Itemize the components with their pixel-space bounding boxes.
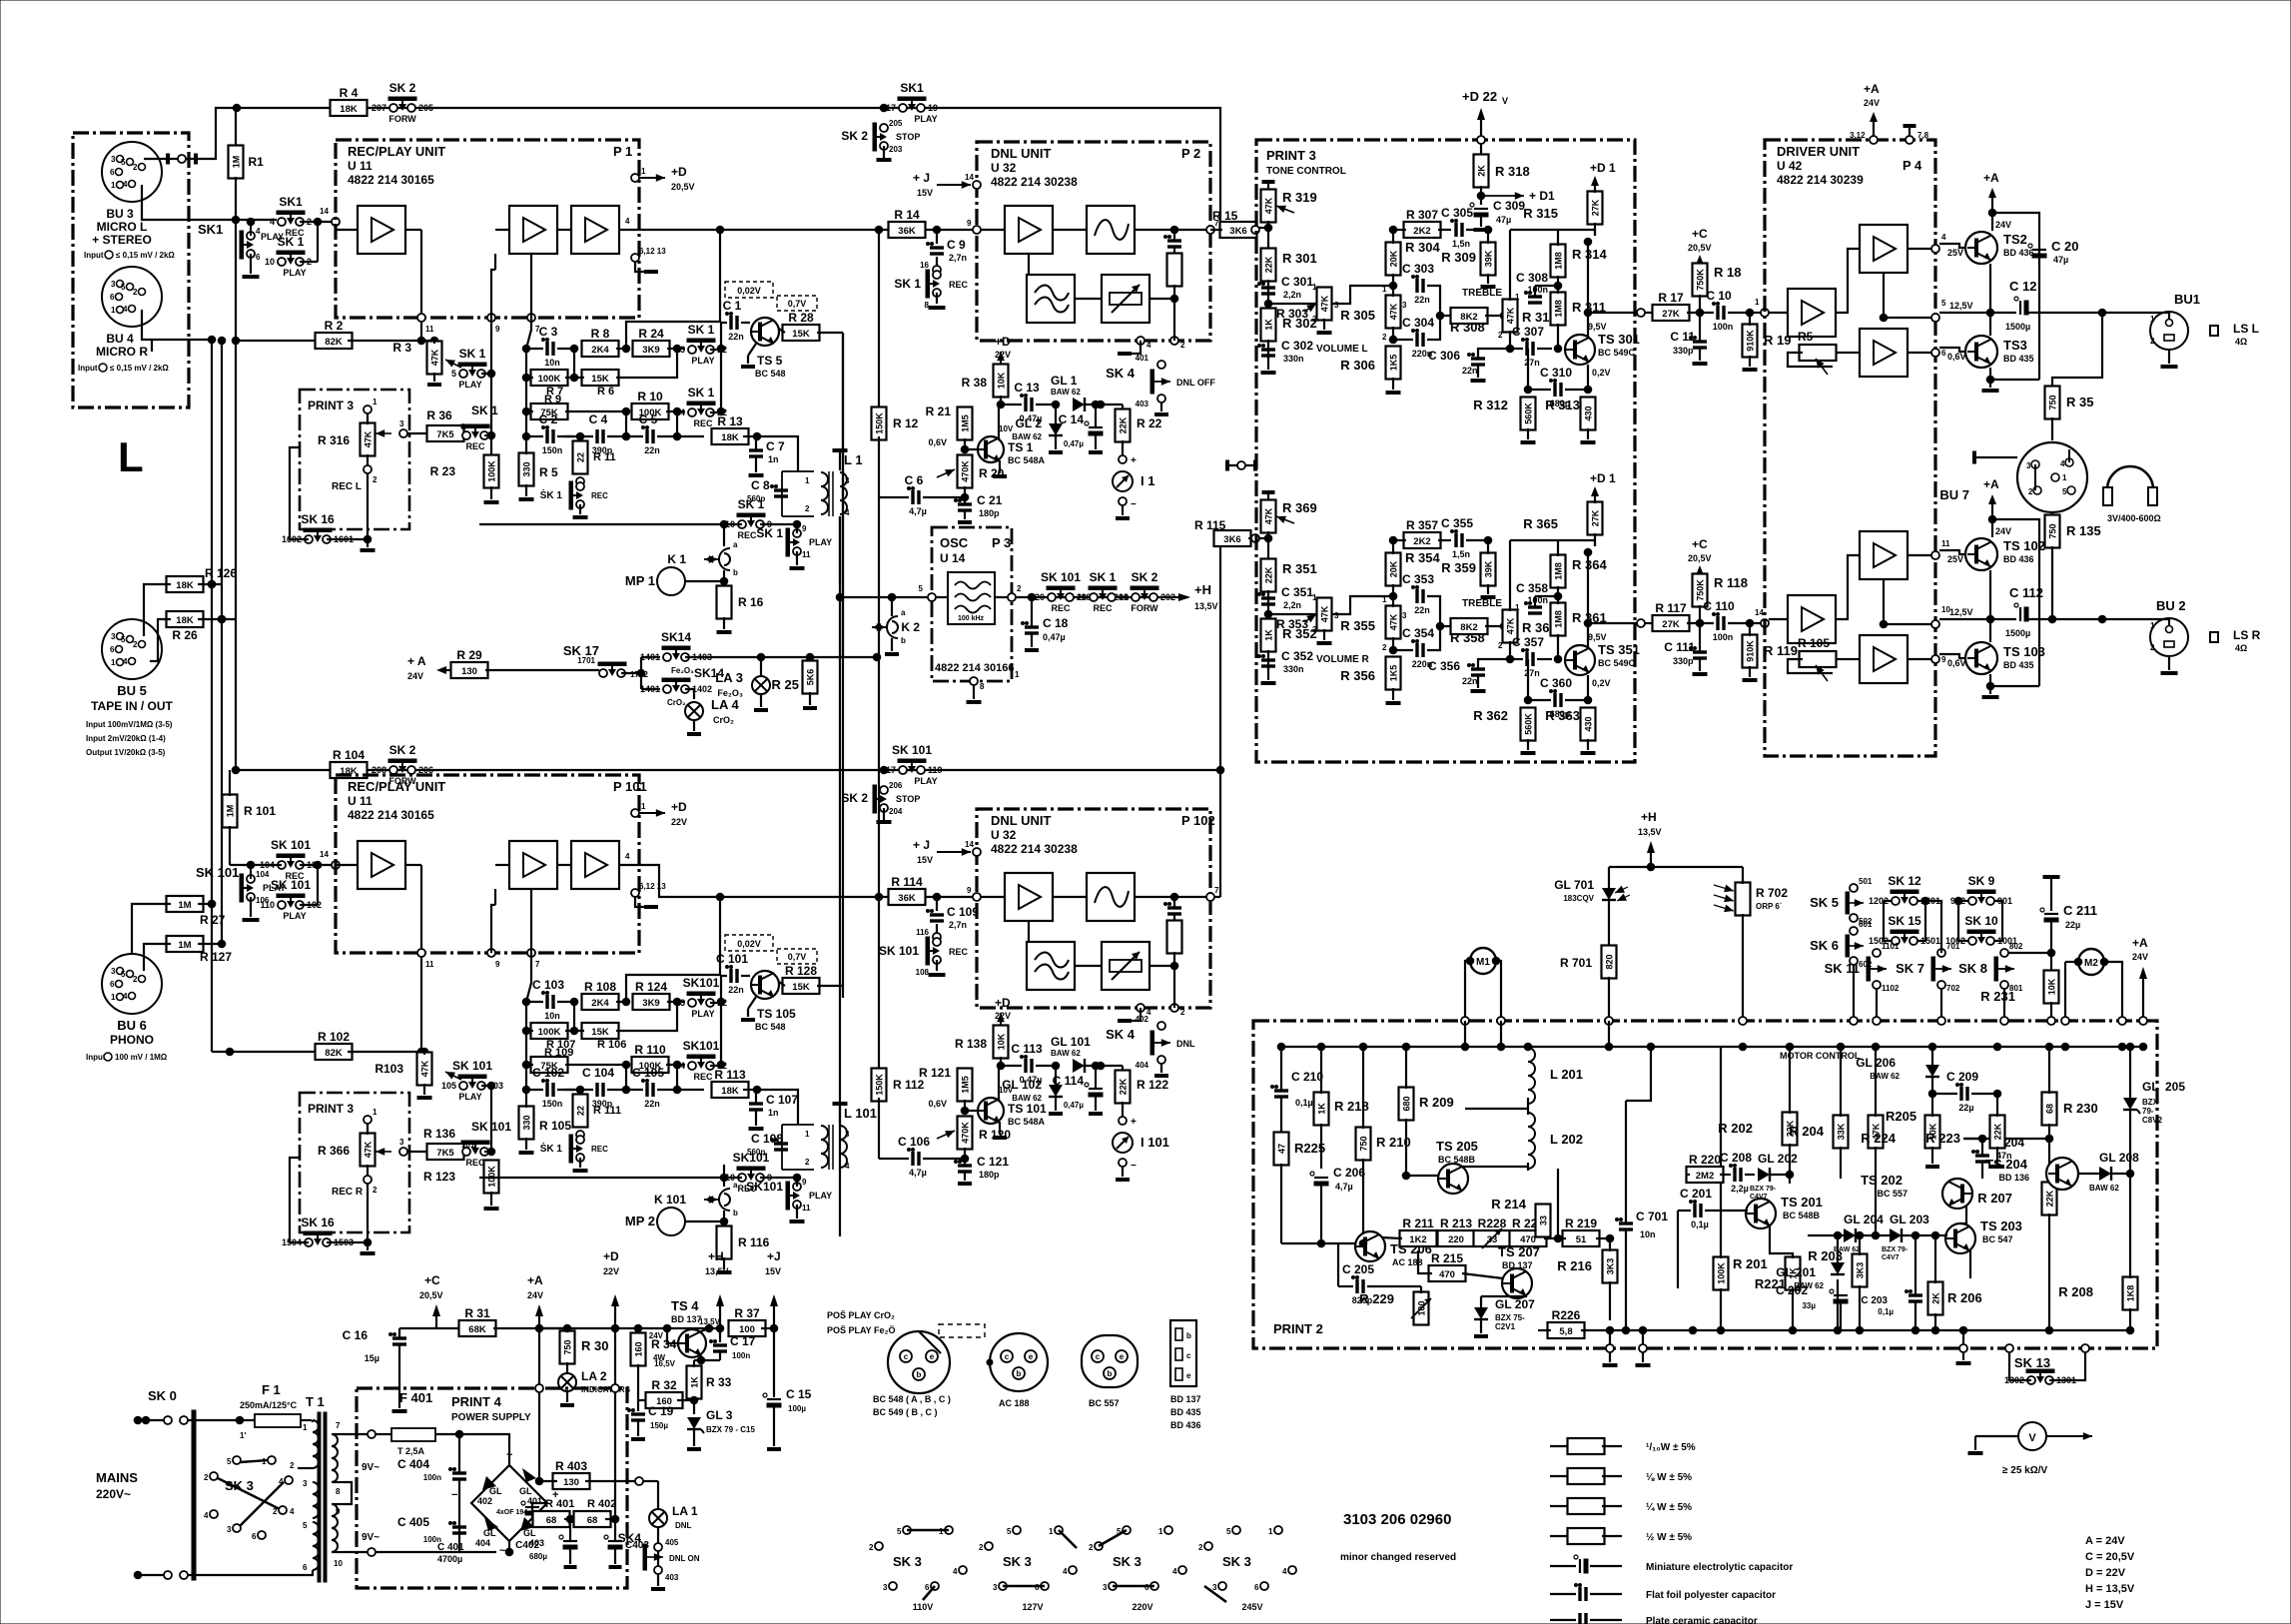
svg-text:Input: Input bbox=[78, 364, 98, 373]
svg-text:2K4: 2K4 bbox=[591, 998, 609, 1009]
svg-text:5: 5 bbox=[897, 1527, 902, 1536]
svg-text:GL 201: GL 201 bbox=[1776, 1265, 1816, 1279]
connector BU4 MICRO R bbox=[102, 267, 162, 327]
module box REC/PLAY UNIT P 1 bbox=[336, 140, 639, 318]
svg-text:1: 1 bbox=[303, 1423, 308, 1432]
svg-text:REC: REC bbox=[465, 441, 485, 451]
svg-text:C 11: C 11 bbox=[1670, 330, 1695, 344]
capacitor C 103 bbox=[545, 995, 548, 1009]
svg-text:33: 33 bbox=[1487, 1234, 1498, 1245]
svg-text:14: 14 bbox=[320, 207, 329, 216]
svg-text:5: 5 bbox=[2062, 487, 2067, 496]
capacitor C 21 bbox=[958, 502, 972, 505]
resistor R227 bbox=[1510, 1230, 1547, 1246]
wire R102 bus bbox=[212, 1051, 320, 1053]
svg-text:1M: 1M bbox=[232, 156, 242, 169]
svg-text:2: 2 bbox=[1180, 1008, 1185, 1017]
capacitor C 304 bbox=[1415, 333, 1418, 347]
svg-text:R 305: R 305 bbox=[1340, 308, 1375, 323]
resistor R224 bbox=[1925, 1116, 1940, 1149]
svg-text:C 404: C 404 bbox=[397, 1457, 429, 1471]
diode GL201 bbox=[1831, 1262, 1845, 1274]
svg-text:2: 2 bbox=[1498, 331, 1503, 340]
diode GL205 bbox=[2123, 1098, 2137, 1110]
svg-text:47K: 47K bbox=[1264, 507, 1274, 524]
resistor R 107 bbox=[531, 1023, 568, 1039]
svg-text:14: 14 bbox=[320, 850, 329, 859]
svg-text:POS̈ PLAY CrO₂: POS̈ PLAY CrO₂ bbox=[827, 1310, 895, 1320]
svg-text:4: 4 bbox=[625, 217, 630, 226]
svg-text:220: 220 bbox=[1448, 1234, 1464, 1245]
pot R 310 bbox=[1503, 300, 1518, 333]
motor M1 bbox=[1470, 948, 1496, 974]
pot R 316 bbox=[361, 423, 376, 456]
svg-text:7: 7 bbox=[336, 1421, 341, 1430]
svg-text:10: 10 bbox=[334, 1559, 343, 1568]
varistor block bbox=[1102, 942, 1149, 990]
resistor R209 bbox=[1399, 1088, 1414, 1121]
svg-text:7,8: 7,8 bbox=[1917, 131, 1929, 140]
svg-text:680µ: 680µ bbox=[529, 1552, 547, 1561]
resistor R 116 bbox=[717, 1226, 732, 1259]
switch SK17 bbox=[599, 669, 607, 677]
resistor R 121 bbox=[958, 1069, 973, 1102]
svg-text:R 10: R 10 bbox=[637, 390, 663, 404]
svg-text:PLAY: PLAY bbox=[809, 537, 832, 547]
svg-text:R 124: R 124 bbox=[635, 980, 667, 994]
svg-text:R 117: R 117 bbox=[1655, 601, 1687, 615]
resistor R 306 bbox=[1386, 347, 1401, 380]
svg-text:R 4: R 4 bbox=[340, 86, 359, 100]
svg-text:9: 9 bbox=[495, 960, 500, 969]
svg-text:BD 137: BD 137 bbox=[1170, 1394, 1201, 1404]
svg-text:BD 137: BD 137 bbox=[1502, 1260, 1533, 1270]
svg-text:36K: 36K bbox=[898, 893, 916, 904]
svg-text:47K: 47K bbox=[1264, 197, 1274, 214]
svg-text:3: 3 bbox=[883, 1583, 888, 1592]
svg-text:SK 3: SK 3 bbox=[225, 1478, 254, 1493]
svg-text:V: V bbox=[2028, 1432, 2036, 1444]
svg-text:2: 2 bbox=[133, 640, 138, 649]
svg-text:R 223: R 223 bbox=[1925, 1131, 1960, 1146]
svg-text:R 362: R 362 bbox=[1473, 708, 1508, 723]
svg-text:1,5n: 1,5n bbox=[1452, 549, 1470, 559]
svg-text:C 18: C 18 bbox=[1043, 616, 1069, 630]
svg-text:V: V bbox=[1502, 96, 1508, 106]
svg-text:1M5: 1M5 bbox=[961, 1076, 971, 1094]
svg-text:PRINT 2: PRINT 2 bbox=[1273, 1321, 1323, 1336]
svg-text:C 201: C 201 bbox=[1680, 1187, 1712, 1201]
svg-text:5: 5 bbox=[919, 584, 924, 593]
capacitor C 12 bbox=[2019, 301, 2021, 315]
resistor R26 bbox=[167, 611, 204, 627]
svg-text:R 22: R 22 bbox=[1137, 416, 1162, 430]
svg-text:SK 4: SK 4 bbox=[1106, 366, 1136, 381]
svg-text:b: b bbox=[917, 1370, 922, 1379]
resistor R204 bbox=[1834, 1116, 1849, 1149]
switch SK1 rec 10-9 bbox=[738, 1174, 746, 1182]
svg-text:1M: 1M bbox=[178, 900, 191, 911]
svg-text:SK 6: SK 6 bbox=[1810, 938, 1839, 953]
capacitor C 351 bbox=[1261, 596, 1275, 599]
svg-text:0,02V: 0,02V bbox=[737, 286, 761, 296]
svg-text:206: 206 bbox=[889, 781, 903, 790]
svg-text:BC 549C: BC 549C bbox=[1598, 348, 1636, 358]
svg-text:K 101: K 101 bbox=[654, 1193, 686, 1207]
capacitor C18 bbox=[1025, 625, 1039, 628]
svg-text:390p: 390p bbox=[592, 1099, 613, 1109]
svg-text:1: 1 bbox=[111, 658, 116, 667]
resistor R 364 bbox=[1551, 555, 1566, 588]
svg-text:4: 4 bbox=[1282, 1567, 1287, 1576]
svg-text:5: 5 bbox=[1007, 1527, 1012, 1536]
svg-text:5K6: 5K6 bbox=[806, 669, 816, 686]
svg-text:C 309: C 309 bbox=[1493, 199, 1525, 213]
svg-text:27n: 27n bbox=[1524, 668, 1540, 678]
svg-text:C 104: C 104 bbox=[582, 1066, 614, 1080]
svg-text:minor changed reserved: minor changed reserved bbox=[1340, 1552, 1456, 1563]
svg-text:18K: 18K bbox=[176, 615, 194, 626]
switch SK1 rec 10-9 bbox=[738, 520, 746, 528]
pot R366 bbox=[361, 1134, 376, 1167]
svg-text:R 30: R 30 bbox=[581, 1338, 608, 1353]
svg-text:REC: REC bbox=[949, 947, 969, 957]
capacitor C 112 bbox=[2019, 607, 2021, 621]
svg-text:2: 2 bbox=[869, 1543, 874, 1552]
svg-text:16: 16 bbox=[920, 261, 929, 270]
svg-text:R 37: R 37 bbox=[734, 1306, 760, 1320]
legend resistors bbox=[1550, 1445, 1570, 1447]
svg-text:C 109: C 109 bbox=[947, 905, 979, 919]
svg-text:100 kHz: 100 kHz bbox=[958, 615, 985, 622]
svg-text:1K2: 1K2 bbox=[1409, 1234, 1426, 1245]
switch SK6 bbox=[1846, 935, 1850, 957]
svg-text:SK 1: SK 1 bbox=[688, 386, 715, 400]
svg-text:180p: 180p bbox=[979, 1170, 1000, 1180]
capacitor C404 bbox=[452, 1471, 466, 1474]
svg-text:180p: 180p bbox=[979, 508, 1000, 518]
svg-text:1: 1 bbox=[1268, 1527, 1273, 1536]
svg-text:5: 5 bbox=[121, 283, 126, 292]
svg-text:22: 22 bbox=[576, 452, 586, 462]
svg-text:U 32: U 32 bbox=[991, 828, 1017, 842]
svg-text:e: e bbox=[1186, 1371, 1191, 1380]
emitter junction bbox=[1989, 570, 1991, 619]
svg-text:PLAY: PLAY bbox=[809, 1191, 832, 1201]
svg-text:4,7µ: 4,7µ bbox=[1335, 1182, 1353, 1192]
capacitor C 5 bbox=[645, 429, 648, 443]
svg-text:+D: +D bbox=[671, 165, 687, 179]
svg-text:+ J: + J bbox=[913, 838, 930, 852]
resistor R 10 bbox=[632, 404, 669, 419]
svg-text:1K5: 1K5 bbox=[1389, 355, 1399, 372]
svg-text:C 110: C 110 bbox=[1703, 599, 1735, 613]
switch SK2 stop lower bbox=[880, 786, 888, 794]
resistor R33 bbox=[694, 1359, 701, 1361]
pot R213 bbox=[1438, 1230, 1475, 1246]
pin 5 bbox=[928, 593, 936, 601]
svg-text:15V: 15V bbox=[917, 855, 933, 865]
svg-text:BC 548A: BC 548A bbox=[1008, 1117, 1046, 1127]
TS1 collector bbox=[998, 405, 1000, 439]
svg-text:DNL ON: DNL ON bbox=[669, 1554, 700, 1563]
resistor R 36 bbox=[427, 425, 464, 441]
wire C1 top link bbox=[626, 322, 721, 349]
svg-text:SK 12: SK 12 bbox=[1888, 874, 1921, 888]
svg-text:PLAY: PLAY bbox=[458, 380, 481, 390]
svg-text:117: 117 bbox=[881, 765, 896, 775]
TS3 emitter gnd bbox=[1989, 368, 1991, 388]
capacitor C 1 bbox=[729, 316, 732, 330]
svg-text:100K: 100K bbox=[487, 460, 497, 482]
lamp LA3 bbox=[760, 657, 762, 675]
svg-text:PRINT 4: PRINT 4 bbox=[451, 1394, 502, 1409]
pot R 360 bbox=[1503, 610, 1518, 643]
driver top op-amp bbox=[1860, 225, 1908, 273]
svg-text:10: 10 bbox=[265, 257, 275, 267]
svg-text:13,5V: 13,5V bbox=[1194, 601, 1218, 611]
svg-text:1M5: 1M5 bbox=[961, 414, 971, 432]
svg-text:R 109: R 109 bbox=[544, 1047, 573, 1059]
capacitor C 357 bbox=[1525, 652, 1528, 666]
svg-text:SK101: SK101 bbox=[683, 1039, 720, 1053]
svg-text:TS 105: TS 105 bbox=[757, 1007, 796, 1021]
svg-text:MP 1: MP 1 bbox=[625, 573, 655, 588]
coil L202 bbox=[1528, 1113, 1535, 1169]
svg-text:PLAY: PLAY bbox=[458, 1092, 481, 1102]
svg-text:c: c bbox=[1096, 1352, 1101, 1361]
svg-text:BC 548: BC 548 bbox=[755, 1022, 786, 1032]
svg-text:SK 17: SK 17 bbox=[563, 643, 599, 658]
switch SK1 rec vert bbox=[576, 1136, 584, 1144]
svg-text:25V: 25V bbox=[1947, 248, 1963, 258]
svg-text:750K: 750K bbox=[1696, 579, 1706, 601]
svg-text:+D 1: +D 1 bbox=[1590, 161, 1616, 175]
svg-text:TS 4: TS 4 bbox=[671, 1298, 699, 1313]
svg-text:910K: 910K bbox=[1746, 330, 1756, 352]
svg-text:SK 16: SK 16 bbox=[301, 1216, 335, 1229]
svg-text:4822 214 30239: 4822 214 30239 bbox=[1777, 173, 1864, 187]
resistor R 363 bbox=[1581, 708, 1596, 741]
svg-text:C 355: C 355 bbox=[1441, 516, 1473, 530]
switch SK2 forw osc bbox=[1132, 593, 1140, 601]
resistor R 307 bbox=[1404, 222, 1441, 238]
svg-text:+A: +A bbox=[527, 1273, 543, 1287]
pin 11 bbox=[417, 314, 425, 322]
svg-text:BC 549C: BC 549C bbox=[1598, 658, 1636, 668]
svg-text:BD 435: BD 435 bbox=[2003, 354, 2034, 364]
svg-text:REC/PLAY UNIT: REC/PLAY UNIT bbox=[348, 144, 445, 159]
svg-text:GL 2: GL 2 bbox=[1016, 416, 1043, 430]
capacitor C202 bbox=[1834, 1294, 1848, 1296]
svg-text:GL 202: GL 202 bbox=[1758, 1152, 1798, 1166]
svg-text:BC 557: BC 557 bbox=[1089, 1398, 1120, 1408]
resistor R 19 bbox=[1743, 325, 1758, 358]
svg-text:5,8: 5,8 bbox=[1559, 1326, 1572, 1337]
op-amp A2 bbox=[509, 841, 557, 889]
capacitor C 3 bbox=[545, 342, 548, 356]
svg-text:110V: 110V bbox=[913, 1602, 934, 1612]
svg-text:SK 101: SK 101 bbox=[892, 743, 932, 757]
collector rail bbox=[1992, 519, 2039, 686]
svg-text:SK 11: SK 11 bbox=[1825, 961, 1860, 976]
0.7v dashed label bbox=[777, 296, 817, 311]
svg-text:MICRO L: MICRO L bbox=[97, 220, 148, 234]
svg-text:17: 17 bbox=[886, 103, 896, 113]
svg-text:203: 203 bbox=[889, 145, 903, 154]
capacitor C 121 bbox=[958, 1164, 972, 1167]
TS301 collector wire bbox=[1587, 242, 1589, 339]
svg-text:12,5V: 12,5V bbox=[1949, 607, 1973, 617]
svg-text:47: 47 bbox=[1277, 1144, 1287, 1154]
lamp LA2 bbox=[558, 1373, 576, 1391]
resistor R5 ladder bbox=[519, 453, 534, 486]
svg-text:68: 68 bbox=[546, 1515, 557, 1526]
svg-text:+ D1: + D1 bbox=[1529, 189, 1555, 203]
capacitor C 310 bbox=[1553, 383, 1556, 397]
photo diode GL701 bbox=[1602, 888, 1616, 900]
svg-text:R 38: R 38 bbox=[962, 376, 988, 390]
svg-text:100K: 100K bbox=[538, 1027, 561, 1038]
svg-text:TS 203: TS 203 bbox=[1980, 1218, 2022, 1233]
svg-text:22µ: 22µ bbox=[2065, 920, 2080, 930]
svg-text:47µ: 47µ bbox=[2053, 255, 2068, 265]
output node pin bbox=[1637, 619, 1645, 627]
resistor R 302 bbox=[1261, 309, 1276, 342]
svg-text:R 119: R 119 bbox=[1764, 643, 1798, 658]
svg-text:39K: 39K bbox=[1484, 560, 1494, 577]
transistor TS203 bbox=[1945, 1223, 1975, 1253]
svg-text:C 15: C 15 bbox=[786, 1387, 812, 1401]
svg-text:9: 9 bbox=[967, 886, 972, 895]
svg-text:12,5V: 12,5V bbox=[1949, 301, 1973, 311]
resistor R 12 bbox=[878, 230, 880, 410]
capacitor C 101 bbox=[729, 969, 732, 983]
svg-text:F 1: F 1 bbox=[262, 1382, 281, 1397]
svg-text:C 4: C 4 bbox=[589, 412, 608, 426]
svg-text:2: 2 bbox=[2150, 643, 2155, 652]
svg-text:LA 4: LA 4 bbox=[711, 697, 739, 712]
svg-text:100 mV / 1MΩ: 100 mV / 1MΩ bbox=[115, 1053, 168, 1062]
capacitor C 301 bbox=[1261, 286, 1275, 289]
svg-text:C 10: C 10 bbox=[1706, 289, 1732, 303]
svg-text:C 2: C 2 bbox=[539, 412, 558, 426]
svg-text:205: 205 bbox=[2165, 1080, 2185, 1094]
svg-text:GL: GL bbox=[2142, 1080, 2159, 1094]
svg-text:82K: 82K bbox=[325, 1048, 343, 1059]
svg-text:2,2µ: 2,2µ bbox=[1731, 1184, 1749, 1194]
svg-text:C 8: C 8 bbox=[751, 478, 770, 492]
emitter junction bbox=[1989, 264, 1991, 313]
pot R103 bbox=[417, 1053, 432, 1086]
measure point MP 2 bbox=[657, 1208, 685, 1235]
svg-text:47µ: 47µ bbox=[1496, 215, 1511, 225]
pot R105 bbox=[1833, 658, 1848, 660]
capacitor C204 bbox=[1975, 1154, 1989, 1157]
resistor R 23 bbox=[490, 318, 492, 456]
pin 9 bbox=[487, 314, 495, 322]
svg-text:201: 201 bbox=[1114, 592, 1129, 602]
svg-text:750: 750 bbox=[2048, 395, 2058, 409]
svg-text:TS 202: TS 202 bbox=[1861, 1173, 1903, 1188]
svg-text:245V: 245V bbox=[1241, 1602, 1262, 1612]
capacitor C17 bbox=[719, 1328, 721, 1342]
svg-text:BD 435: BD 435 bbox=[1170, 1407, 1201, 1417]
svg-text:C 7: C 7 bbox=[766, 439, 785, 453]
resistor R37 bbox=[729, 1320, 766, 1336]
switch SK1 play 13-12 bbox=[688, 999, 696, 1007]
svg-text:R 355: R 355 bbox=[1340, 618, 1375, 633]
filter sine block bbox=[1087, 206, 1135, 254]
svg-text:BAW 62: BAW 62 bbox=[1834, 1246, 1860, 1253]
svg-text:750K: 750K bbox=[1696, 269, 1706, 291]
svg-text:402: 402 bbox=[1136, 1015, 1149, 1024]
svg-text:820p: 820p bbox=[1352, 1295, 1373, 1305]
svg-text:R 23: R 23 bbox=[430, 464, 456, 478]
svg-text:BZX 79-: BZX 79- bbox=[1882, 1246, 1909, 1253]
svg-text:150K: 150K bbox=[875, 1074, 885, 1096]
svg-text:R 28: R 28 bbox=[788, 311, 814, 325]
pin 2 bbox=[1008, 593, 1016, 601]
svg-text:3: 3 bbox=[227, 1525, 232, 1534]
svg-text:0,1µ: 0,1µ bbox=[1691, 1219, 1709, 1229]
svg-text:TS 205: TS 205 bbox=[1436, 1139, 1478, 1154]
svg-text:R 201: R 201 bbox=[1733, 1256, 1768, 1271]
svg-text:2: 2 bbox=[2150, 337, 2155, 346]
module box PRINT 2 bbox=[1253, 1021, 2157, 1348]
switch SK16 lower bbox=[305, 1238, 313, 1246]
svg-text:3K6: 3K6 bbox=[1229, 226, 1246, 237]
svg-text:10n: 10n bbox=[544, 1011, 560, 1021]
op-amp A2 bbox=[509, 206, 557, 254]
svg-text:24V: 24V bbox=[1995, 526, 2011, 536]
pot R 3 bbox=[348, 340, 434, 342]
svg-text:R 17: R 17 bbox=[1658, 291, 1684, 305]
svg-text:BZX: BZX bbox=[2142, 1098, 2159, 1107]
svg-text:22K: 22K bbox=[1119, 416, 1129, 433]
svg-text:11: 11 bbox=[425, 960, 434, 969]
resistor R135 bbox=[2051, 512, 2053, 516]
wire R2 bus bbox=[236, 340, 320, 342]
resistor R 38 bbox=[1000, 352, 1002, 366]
op-amp DNL bbox=[1005, 206, 1053, 254]
svg-text:100K: 100K bbox=[487, 1166, 497, 1188]
svg-text:2: 2 bbox=[133, 288, 138, 297]
capacitor dnl internal bbox=[1167, 239, 1181, 242]
svg-text:R205: R205 bbox=[1886, 1109, 1916, 1124]
svg-text:2: 2 bbox=[1017, 584, 1022, 593]
svg-text:403: 403 bbox=[665, 1573, 679, 1582]
svg-text:T 1: T 1 bbox=[306, 1394, 325, 1409]
switch SK101 play2 bbox=[278, 901, 286, 909]
svg-text:R 357: R 357 bbox=[1406, 518, 1438, 532]
svg-text:R 26: R 26 bbox=[172, 628, 198, 642]
svg-text:SK14: SK14 bbox=[661, 630, 691, 644]
svg-text:207: 207 bbox=[372, 103, 386, 113]
pins 4 2 bottom bbox=[1137, 337, 1145, 345]
capacitor C 107 bbox=[749, 1102, 763, 1105]
resistor R136 bbox=[427, 1144, 464, 1160]
svg-text:910K: 910K bbox=[1746, 640, 1756, 662]
svg-text:R 118: R 118 bbox=[1714, 575, 1748, 590]
svg-text:SK4: SK4 bbox=[618, 1531, 642, 1545]
svg-text:2: 2 bbox=[373, 1186, 378, 1195]
svg-text:¹/₁₀W ± 5%: ¹/₁₀W ± 5% bbox=[1646, 1442, 1696, 1453]
svg-text:R 363: R 363 bbox=[1545, 708, 1580, 723]
svg-text:104: 104 bbox=[256, 870, 270, 879]
resistor R 313 bbox=[1581, 398, 1596, 430]
svg-text:C 6: C 6 bbox=[905, 473, 924, 487]
